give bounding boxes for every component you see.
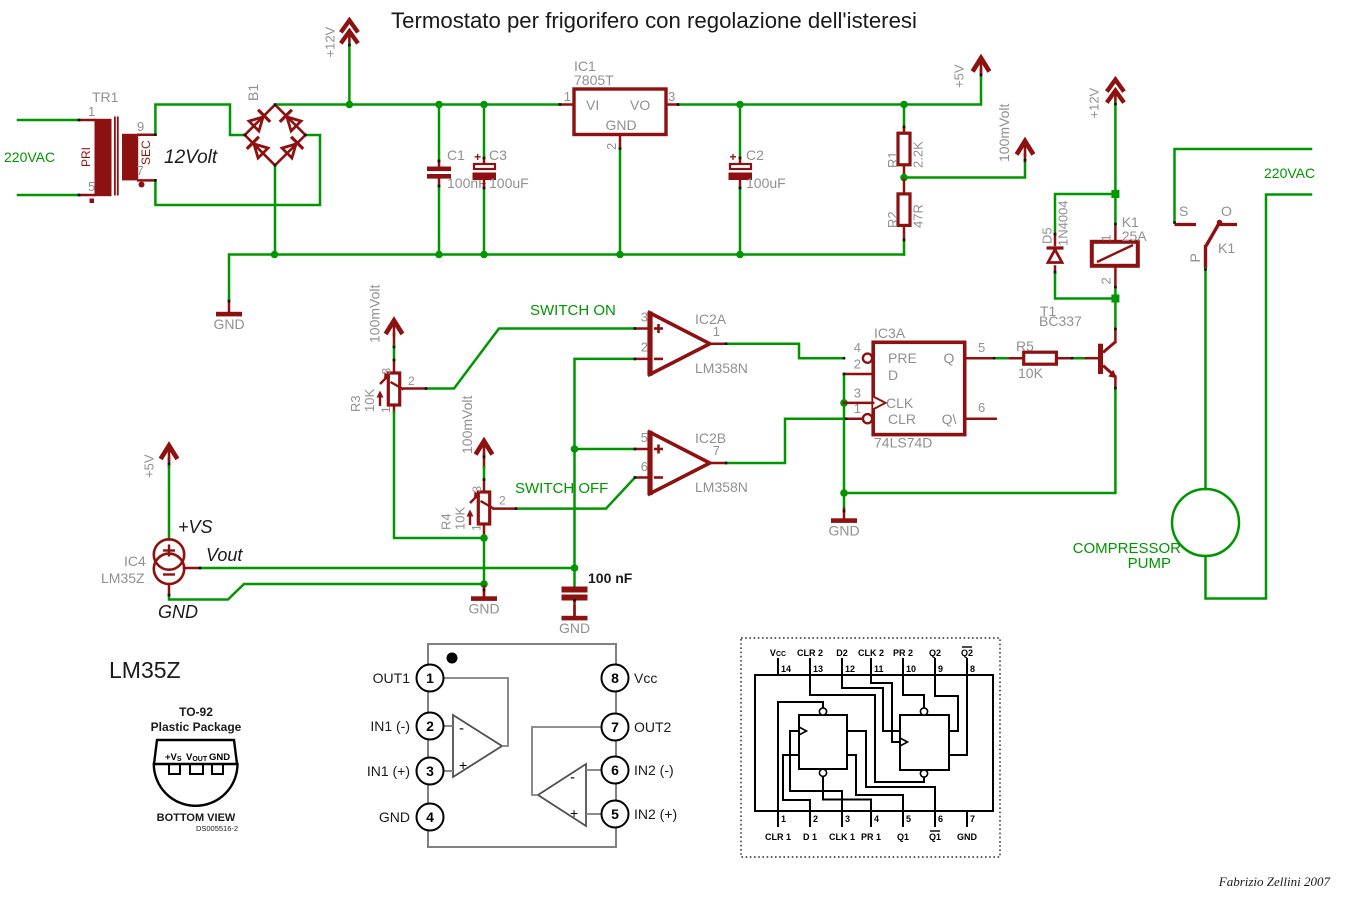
svg-text:8: 8 — [970, 664, 975, 674]
LM358 pin circle 3 — [417, 758, 444, 785]
label B1 rotated — [245, 84, 261, 101]
74LS74 bottom pin stub 5 — [902, 811, 904, 827]
svg-text:LM35Z: LM35Z — [101, 570, 145, 586]
svg-text:Termostato per frigorifero con: Termostato per frigorifero con regolazio… — [391, 8, 917, 33]
74LS74 dashed border — [741, 638, 1000, 857]
IC3A pin label Q — [944, 350, 955, 366]
pin stub C1 bottom — [438, 179, 441, 186]
junction R1 top — [900, 101, 908, 109]
label R3 rotated — [348, 395, 363, 412]
pin stub IC1 GND — [619, 135, 622, 149]
IC3A pin label CLR — [888, 411, 916, 427]
74LS74 label D1 — [803, 832, 817, 842]
plus sign C2 — [729, 150, 736, 164]
value R4 10K rotated — [453, 507, 468, 530]
label C3 — [489, 147, 507, 163]
wire R3 bottom to R4 bottom — [394, 412, 484, 538]
pin stub IC2B in+ — [635, 448, 650, 451]
pin stub relay pin2 — [1114, 266, 1117, 287]
svg-text:7: 7 — [611, 719, 619, 735]
pin number 9 TR1 — [137, 119, 144, 134]
switch K1 O contact — [1217, 220, 1237, 226]
pin stub IC2B out — [710, 462, 726, 465]
pin stub IC2B in- — [635, 476, 650, 479]
74LS74 label CLR2 — [797, 648, 823, 658]
wire relay pin2 to node — [1114, 287, 1117, 299]
74LS74 FF1 top bubble — [819, 708, 826, 715]
svg-text:OUT2: OUT2 — [634, 719, 672, 735]
value 25A — [1122, 228, 1148, 244]
svg-text:GND: GND — [828, 523, 859, 539]
IC3A pin number 5 — [978, 340, 985, 355]
74LS74 net CLR2 — [810, 675, 924, 782]
wire C1 upper — [438, 105, 441, 162]
wire node to D5 top — [1055, 194, 1115, 234]
pin connection tick marks — [78, 44, 1207, 602]
IC2B minus sign — [654, 476, 663, 479]
junction C1 top — [435, 101, 443, 109]
plus sign C3 — [474, 150, 481, 164]
pin stub TR1 pin1 — [79, 119, 95, 122]
title text — [391, 8, 917, 33]
value LM358N upper — [695, 360, 748, 376]
pin stub C2 top — [739, 158, 742, 164]
wire switch to compressor — [1204, 269, 1207, 490]
pin stub C3 bottom — [483, 180, 486, 188]
wire R5 to base — [1072, 357, 1086, 360]
switch terminal P rotated — [1187, 253, 1203, 262]
74LS74 FF2 top bubble — [920, 708, 927, 715]
label IC3A — [874, 325, 906, 341]
value 100nF — [447, 175, 487, 191]
74LS74 FF2 box — [900, 715, 949, 770]
wire collector — [1114, 299, 1117, 330]
pin stub D5 anode — [1054, 267, 1057, 274]
74LS74 FF1 clock triangle — [799, 727, 807, 735]
svg-text:7: 7 — [970, 814, 975, 824]
svg-text:10K: 10K — [453, 507, 468, 530]
svg-text:R2: R2 — [885, 211, 900, 228]
R4 pin number 1 rotated — [470, 524, 484, 531]
power arrow 100mVolt R4 — [476, 441, 493, 457]
TO-92 package outline — [154, 740, 238, 806]
pin stub +5V arrow — [980, 70, 983, 75]
label GND italic — [158, 602, 198, 622]
junction lm35 gnd return — [480, 580, 488, 588]
74LS74 bottom pin stub 3 — [841, 811, 843, 827]
label 100mVolt rotated R4 — [459, 396, 475, 454]
label +12V rotated — [323, 26, 338, 57]
svg-text:11: 11 — [874, 664, 884, 674]
label +5V rotated sensor — [142, 454, 157, 478]
value BC337 — [1039, 313, 1082, 329]
svg-text:10K: 10K — [1018, 365, 1044, 381]
junction C2 top — [736, 101, 744, 109]
svg-text:Vout: Vout — [206, 545, 243, 565]
74LS74 top pin stub 14 — [777, 658, 779, 675]
compressor pump circle — [1172, 489, 1239, 556]
svg-text:+: + — [459, 757, 467, 773]
svg-text:3: 3 — [668, 89, 675, 104]
svg-text:+12V: +12V — [323, 26, 338, 57]
74LS74 bottom pin stub 7 — [966, 811, 968, 827]
wire Vout bus vertical — [575, 359, 635, 568]
wire +12V second stem — [1114, 103, 1117, 194]
IC3A CLR bubble — [863, 414, 872, 423]
svg-text:100mVolt: 100mVolt — [367, 285, 383, 343]
74LS74 label Q2bar — [961, 647, 973, 658]
74LS74 bottom pin number 4 — [874, 814, 879, 824]
svg-text:2: 2 — [641, 340, 648, 355]
bridge B1 diode bottom-right — [282, 137, 303, 158]
power arrow +12V — [341, 20, 358, 46]
wire compressor return — [1206, 195, 1312, 599]
74LS74 top pin stub 11 — [870, 658, 872, 675]
IC2B pin number 5 — [641, 430, 648, 445]
74LS74 label GND — [957, 832, 978, 842]
R3 pin number 1 rotated — [379, 406, 393, 413]
svg-text:74LS74D: 74LS74D — [874, 435, 932, 451]
svg-text:Plastic Package: Plastic Package — [151, 720, 242, 734]
74LS74 top pin number 11 — [874, 664, 884, 674]
IC1 pin number 2 rotated — [604, 143, 619, 150]
svg-text:6: 6 — [978, 400, 985, 415]
74LS74 bottom pin number 1 — [781, 814, 786, 824]
74LS74 bottom pin stub 2 — [809, 811, 811, 827]
wire +5V rail — [678, 75, 981, 105]
svg-text:BOTTOM VIEW: BOTTOM VIEW — [157, 812, 236, 824]
svg-text:IC2B: IC2B — [695, 430, 726, 446]
wire lm35 gnd return — [169, 584, 484, 600]
pin stub R5 left — [1010, 357, 1024, 360]
wire gnd rail — [229, 255, 904, 302]
label SWITCH OFF — [515, 480, 608, 497]
svg-text:S: S — [1179, 203, 1188, 219]
value C2 100uF — [746, 175, 786, 191]
svg-text:2: 2 — [408, 374, 415, 388]
svg-text:5: 5 — [88, 179, 95, 194]
ground symbol R4 — [468, 586, 499, 617]
svg-text:3: 3 — [854, 386, 861, 401]
label C2 — [746, 147, 764, 163]
svg-text:+: + — [474, 150, 481, 164]
pin number 7 TR1 — [137, 163, 144, 178]
pin stub R5 right — [1056, 357, 1072, 360]
svg-text:220VAC: 220VAC — [4, 149, 55, 165]
label 220VAC right — [1264, 165, 1315, 181]
svg-text:GND: GND — [213, 316, 244, 332]
IC3A pin label Qbar — [942, 411, 957, 427]
svg-text:IN2 (+): IN2 (+) — [634, 806, 677, 822]
LM358 label IN1 (-) — [370, 718, 410, 734]
svg-text:3: 3 — [641, 310, 648, 325]
junction bridge gnd — [271, 251, 279, 259]
polarity mark secondary — [139, 182, 145, 188]
junction relay top node — [1111, 190, 1119, 198]
switch terminal O — [1221, 203, 1232, 219]
wire Q to R5 — [994, 357, 1010, 360]
svg-text:Q2: Q2 — [929, 648, 941, 658]
74LS74 label CLR1 — [765, 832, 791, 842]
74LS74 FF1 bottom bubble — [819, 769, 826, 776]
label DS005516-2 — [196, 824, 238, 833]
pin stub C1 top — [438, 161, 441, 167]
transformer TR1 core — [115, 117, 118, 196]
relay K1 coil box — [1092, 242, 1138, 266]
svg-text:100mVolt: 100mVolt — [996, 104, 1012, 162]
svg-text:Fabrizio Zellini 2007: Fabrizio Zellini 2007 — [1218, 874, 1331, 889]
label +VS italic — [178, 517, 213, 537]
IC4 LM35Z symbol circles — [154, 539, 184, 584]
R4 pin number 3 rotated — [470, 486, 484, 493]
74LS74 top pin number 14 — [781, 664, 791, 674]
pin stub IC2A in- — [635, 358, 650, 361]
pin stub TR1 pin9 — [138, 133, 155, 136]
svg-text:SEC: SEC — [139, 140, 153, 165]
svg-text:7805T: 7805T — [574, 72, 614, 88]
wire IC2B out to IC3A CLR — [726, 419, 846, 463]
svg-text:PUMP: PUMP — [1128, 555, 1171, 572]
svg-text:+5V: +5V — [142, 454, 157, 478]
junction C3 bottom — [480, 251, 488, 259]
label Vout italic — [206, 545, 243, 565]
pin number 1 TR1 — [88, 104, 95, 119]
IC1 pin number 3 — [668, 89, 675, 104]
transformer TR1 primary winding — [95, 119, 112, 196]
pin stub R3 bottom — [393, 405, 396, 412]
value 2.2K rotated — [911, 141, 926, 168]
wire C2 lower — [739, 188, 742, 255]
pin stub gnd R4 — [483, 584, 486, 597]
74LS74 FF2 clock triangle — [900, 738, 908, 746]
svg-text:Q1: Q1 — [929, 832, 941, 842]
label R1 rotated — [885, 151, 900, 168]
emitter lead — [1114, 377, 1117, 389]
svg-text:CLK 2: CLK 2 — [858, 648, 884, 658]
svg-text:1N4004: 1N4004 — [1056, 200, 1071, 246]
pin stub R3 wiper — [404, 387, 427, 390]
svg-text:CLR 2: CLR 2 — [797, 648, 823, 658]
power arrow +12V second — [1107, 80, 1124, 106]
svg-text:O: O — [1221, 203, 1232, 219]
value C3 100uF — [489, 175, 529, 191]
svg-text:9: 9 — [938, 664, 943, 674]
value LM35Z — [101, 570, 145, 586]
pin stub IC1 VO — [666, 103, 678, 106]
resistor R2 — [898, 194, 910, 226]
wire secondary top to bridge — [155, 105, 244, 136]
svg-text:6: 6 — [611, 762, 619, 778]
bridge B1 diode bottom-left — [247, 137, 268, 158]
label K1 switch — [1218, 240, 1235, 256]
wire bridge bottom to gnd rail — [274, 165, 277, 254]
svg-text:R1: R1 — [885, 151, 900, 168]
pin stub cap gnd — [573, 601, 576, 617]
R4 pin number 2 — [499, 494, 506, 508]
pin stub R2 top — [903, 178, 906, 194]
svg-text:R4: R4 — [439, 513, 454, 530]
74LS74 top pin number 13 — [813, 664, 823, 674]
label 220VAC left — [4, 149, 55, 165]
74LS74 label Q1bar — [929, 831, 941, 842]
74LS74 top pin stub 9 — [934, 658, 936, 675]
pin stub R1 top — [903, 127, 906, 133]
svg-text:+12V: +12V — [1087, 87, 1102, 118]
value R3 10K rotated — [362, 389, 377, 412]
label COMPRESSOR — [1073, 540, 1182, 557]
74LS74 bottom pin number 3 — [845, 814, 850, 824]
wire bus to IC2B plus — [575, 448, 635, 451]
junction R3R4 bottom — [480, 534, 488, 542]
LM358 label IN2 (+) — [634, 806, 677, 822]
pin stub C3 top — [483, 158, 486, 164]
relay pin number 1 rotated — [1099, 234, 1114, 241]
op-amp IC2A triangle — [650, 312, 710, 376]
svg-text:PRE: PRE — [888, 350, 917, 366]
R3 pin number 3 rotated — [380, 368, 394, 375]
label R4 rotated — [439, 513, 454, 530]
bridge B1 diode top-right — [280, 110, 301, 131]
base lead — [1086, 357, 1098, 360]
74LS74 label Q1 — [897, 832, 909, 842]
wire Vout run — [200, 567, 575, 570]
74LS74 net CLK2 — [871, 675, 900, 742]
svg-text:D 1: D 1 — [803, 832, 817, 842]
pin stub IC3A CLK — [844, 402, 873, 405]
LM358 pin circle 8 — [602, 665, 629, 692]
label R2 rotated — [885, 211, 900, 228]
74LS74 label CLK1 — [829, 832, 855, 842]
IC1 pin number 1 — [564, 89, 571, 104]
junction C1 bottom — [435, 251, 443, 259]
svg-text:PR 2: PR 2 — [893, 648, 913, 658]
ground symbol 100nF — [559, 605, 590, 636]
wire secondary bottom to bridge — [155, 135, 320, 205]
svg-text:1: 1 — [713, 324, 720, 339]
svg-text:OUT1: OUT1 — [373, 670, 411, 686]
svg-text:D: D — [888, 367, 898, 383]
74LS74 top pin number 8 — [970, 664, 975, 674]
junction relay bottom node — [1111, 295, 1119, 303]
collector lead — [1114, 329, 1117, 342]
svg-text:2: 2 — [854, 357, 861, 372]
74LS74 net Q1bar — [847, 731, 935, 811]
svg-text:-: - — [570, 769, 575, 786]
74LS74 bottom pin stub 6 — [934, 811, 936, 827]
pin stub R4 bottom — [483, 524, 486, 538]
svg-text:GND: GND — [209, 752, 230, 763]
value LM358N lower — [695, 479, 748, 495]
bridge B1 diode top-left — [249, 110, 270, 131]
pin stub TR1 pin5 — [79, 194, 95, 197]
IC1 7805 box — [574, 89, 666, 135]
wire emitter to gnd — [844, 389, 1115, 493]
svg-text:IN2 (-): IN2 (-) — [634, 762, 674, 778]
IC3A pin label PRE — [888, 350, 917, 366]
label BOTTOM VIEW — [157, 812, 236, 824]
svg-text:7: 7 — [713, 443, 720, 458]
svg-text:BC337: BC337 — [1039, 313, 1082, 329]
wire R2 to gnd rail — [903, 240, 906, 255]
svg-text:6: 6 — [938, 814, 943, 824]
pin stub IC2A in+ — [635, 327, 650, 330]
label +12V rotated second — [1087, 87, 1102, 118]
pin number 5 TR1 — [88, 179, 95, 194]
label IC1 — [574, 58, 596, 74]
svg-text:2: 2 — [499, 494, 506, 508]
svg-text:2.2K: 2.2K — [911, 141, 926, 168]
74LS74 label CLK2 — [858, 648, 884, 658]
transistor T1 symbol — [1098, 342, 1117, 379]
74LS74 net Q1 — [847, 755, 903, 811]
pin stub D5 cathode — [1054, 234, 1057, 245]
svg-text:IN1 (+): IN1 (+) — [367, 763, 410, 779]
74LS74 bottom pin number 6 — [938, 814, 943, 824]
wire relay pin1 upper — [1114, 194, 1117, 225]
LM358 pin circle 4 — [417, 804, 444, 831]
svg-text:4: 4 — [854, 340, 861, 355]
LM358 label GND — [379, 809, 410, 825]
wire gnd bus down — [843, 493, 846, 508]
label IC2A — [695, 311, 727, 327]
junction gnd bus emitter — [840, 489, 848, 497]
label 100mVolt rotated tap — [996, 104, 1012, 162]
op-amp IC2B triangle — [650, 431, 710, 495]
capacitor C3 polarized plates — [473, 164, 497, 180]
svg-text:CLR: CLR — [888, 411, 916, 427]
capacitor 100nF plates — [562, 587, 588, 601]
wire +12V arrow stem — [348, 44, 351, 105]
74LS74 net D2 — [842, 675, 900, 731]
svg-text:GND: GND — [957, 832, 978, 842]
LM358 opamp2 signs — [570, 769, 578, 821]
svg-text:K1: K1 — [1218, 240, 1235, 256]
74LS74 net CLK1 — [790, 731, 842, 811]
IC2A minus sign — [654, 358, 663, 361]
svg-text:100mVolt: 100mVolt — [459, 396, 475, 454]
wire +5V to lm35 — [168, 467, 171, 540]
pin stub IC1 VI — [560, 103, 574, 106]
svg-text:D2: D2 — [836, 648, 848, 658]
switch K1 moving contact — [1206, 223, 1220, 269]
74LS74 top pin number 12 — [845, 664, 855, 674]
LM358 pin circle 6 — [602, 757, 629, 784]
junction C3 top — [480, 101, 488, 109]
label PRI rotated — [79, 147, 93, 167]
74LS74 bottom pin number 2 — [813, 814, 818, 824]
TO-92 labels — [165, 752, 230, 763]
IC3A pin number 1 — [854, 401, 861, 416]
IC3A PRE bubble — [863, 354, 872, 363]
74LS74 net CLR1 — [778, 702, 823, 811]
resistor R1 — [898, 133, 910, 165]
LM358 opamp1 triangle — [453, 715, 502, 777]
pin stub IC3A CLR — [846, 417, 863, 420]
svg-text:LM358N: LM358N — [695, 360, 748, 376]
wire 220VAC bottom lead — [18, 194, 79, 197]
pin stub lm35 vs — [168, 459, 171, 467]
value 1N4004 rotated — [1056, 200, 1071, 246]
LM358 opamp2 input stubs — [586, 770, 602, 814]
transformer TR1 secondary winding — [122, 134, 138, 181]
svg-text:DS005516-2: DS005516-2 — [196, 824, 238, 833]
ground symbol main — [213, 301, 244, 332]
svg-text:100uF: 100uF — [489, 175, 529, 191]
svg-text:SWITCH ON: SWITCH ON — [530, 302, 616, 319]
switch K1 S contact — [1175, 223, 1197, 226]
74LS74 top pin number 10 — [906, 664, 916, 674]
svg-text:13: 13 — [813, 664, 823, 674]
